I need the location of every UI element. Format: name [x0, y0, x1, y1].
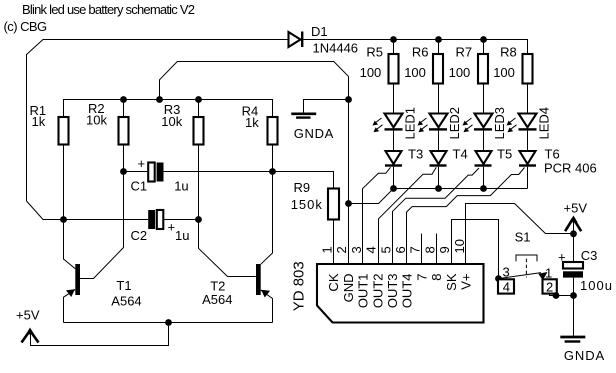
- wire: T6 gate to pin 6: [407, 168, 525, 264]
- diode D1: [289, 24, 359, 56]
- wire: D1 cathode rail to R5-R8: [303, 40, 527, 55]
- svg-text:3: 3: [503, 265, 510, 280]
- svg-text:6: 6: [393, 246, 408, 253]
- svg-text:(c) CBG: (c) CBG: [4, 19, 48, 34]
- wire: pin 9 SK to switch S1: [452, 220, 499, 279]
- resistor R9: [291, 180, 339, 220]
- thyristor T4: [430, 146, 468, 166]
- resistor R7: [449, 45, 488, 84]
- svg-text:YD 803: YD 803: [291, 261, 308, 311]
- capacitor C3: [558, 234, 613, 296]
- svg-text:100: 100: [493, 65, 515, 80]
- resistor R6: [404, 45, 443, 84]
- svg-text:+: +: [138, 156, 146, 171]
- resistor R1: [30, 103, 69, 145]
- svg-text:D1: D1: [311, 24, 328, 39]
- svg-text:R6: R6: [412, 45, 429, 60]
- wire: LED1 to T3: [393, 131, 395, 151]
- wire: R9 to pin 1: [333, 220, 335, 264]
- svg-text:OUT1: OUT1: [356, 274, 371, 309]
- svg-text:8: 8: [429, 274, 444, 281]
- wire: GNDA stub: [304, 100, 349, 113]
- wire: emitter rail T1-T2: [64, 322, 273, 324]
- svg-text:2: 2: [334, 246, 349, 253]
- wire: LED3 to T5: [483, 131, 485, 151]
- ground GNDA top: [291, 114, 334, 141]
- svg-text:LED3: LED3: [492, 107, 507, 140]
- svg-text:SK: SK: [444, 273, 459, 291]
- svg-text:OUT4: OUT4: [400, 274, 415, 309]
- svg-text:1k: 1k: [245, 115, 259, 130]
- resistor R5: [360, 45, 399, 84]
- svg-text:A564: A564: [202, 292, 232, 307]
- wire: C1 right node to T2 collector: [261, 172, 273, 265]
- capacitor C1: [124, 156, 273, 194]
- svg-text:LED4: LED4: [537, 107, 552, 140]
- resistor R4: [242, 104, 278, 145]
- svg-text:C2: C2: [131, 228, 148, 243]
- power +5V bottom left: [16, 307, 40, 342]
- wire: R4 bottom to C1 right node: [272, 145, 274, 172]
- resistor R8: [493, 45, 532, 84]
- wire: R7 to LED3: [483, 84, 485, 114]
- svg-text:100: 100: [404, 65, 426, 80]
- wire: switch to GND: [550, 292, 577, 299]
- node: R2/C1/T1 collector: [120, 168, 127, 175]
- LED LED1: [373, 107, 418, 140]
- node: top rail junctions: [120, 96, 202, 103]
- thyristor T6: [519, 146, 597, 175]
- svg-text:OUT3: OUT3: [385, 274, 400, 309]
- wire: T4 cathode to GND rail: [438, 167, 440, 189]
- wire: R5 to LED1: [393, 84, 395, 114]
- power +5V top right: [564, 200, 588, 237]
- wire: T3 gate to pin 3: [363, 167, 391, 263]
- wire: top rail R1-R4: [64, 100, 273, 118]
- node: R4/C1/T2 collector: [269, 168, 276, 175]
- svg-text:C1: C1: [131, 178, 148, 193]
- svg-text:10k: 10k: [86, 113, 107, 128]
- svg-text:7: 7: [408, 246, 423, 253]
- resistor R2: [86, 101, 129, 145]
- svg-text:R8: R8: [500, 45, 517, 60]
- svg-text:150k: 150k: [291, 197, 323, 212]
- svg-text:100u: 100u: [580, 278, 613, 293]
- LED LED2: [418, 107, 463, 140]
- svg-text:V+: V+: [459, 274, 474, 290]
- wire: SCR cathode GND rail: [394, 188, 528, 190]
- svg-text:10: 10: [452, 239, 467, 253]
- wire: node A to T1 base: [64, 220, 76, 269]
- title text: [4, 2, 195, 34]
- svg-text:+5V: +5V: [564, 200, 588, 215]
- wire: D1 anode rail from left border top: [27, 40, 289, 202]
- wire: R1 bottom to node A: [63, 145, 65, 220]
- svg-text:Blink led use battery schemati: Blink led use battery schematic V2: [22, 2, 195, 17]
- svg-text:4: 4: [503, 279, 510, 294]
- node: GNDA junction: [345, 96, 352, 103]
- svg-text:T1: T1: [116, 278, 131, 293]
- pin 8 stub: [436, 234, 438, 264]
- svg-text:+: +: [558, 250, 566, 265]
- svg-text:1u: 1u: [175, 228, 189, 243]
- svg-text:100: 100: [360, 65, 382, 80]
- pin labels inside IC: [326, 273, 473, 308]
- LED LED4: [507, 107, 552, 140]
- svg-text:T3: T3: [408, 146, 423, 161]
- svg-text:LED2: LED2: [447, 107, 462, 140]
- wire: +5V feed to emitter rail: [31, 323, 169, 346]
- wire: T3 cathode to GND rail: [393, 167, 395, 189]
- wire: T5 gate to pin 5: [393, 168, 480, 263]
- wire: LED2 to T4: [438, 131, 440, 151]
- svg-text:10k: 10k: [161, 114, 182, 129]
- svg-text:OUT2: OUT2: [370, 274, 385, 309]
- transistor T1: [64, 264, 142, 323]
- svg-text:T6: T6: [545, 146, 560, 161]
- svg-text:CK: CK: [326, 273, 341, 291]
- svg-text:8: 8: [422, 246, 437, 253]
- svg-text:GNDA: GNDA: [564, 348, 605, 363]
- capacitor C2: [64, 210, 199, 243]
- svg-text:PCR 406: PCR 406: [544, 160, 597, 175]
- node: D1 rail junctions: [390, 36, 487, 43]
- wire: GND bypass link from top rail to pin 2: [160, 62, 349, 264]
- svg-text:R9: R9: [294, 180, 311, 195]
- node: GND rail junctions: [390, 185, 487, 192]
- svg-text:4: 4: [364, 246, 379, 253]
- switch S1: [495, 230, 557, 295]
- svg-text:1N4446: 1N4446: [313, 41, 359, 56]
- IC U1 YD 803 body: [291, 261, 484, 322]
- svg-text:T5: T5: [497, 146, 512, 161]
- svg-text:3: 3: [349, 246, 364, 253]
- node A: R1/C2/T1 base: [60, 216, 67, 223]
- svg-text:+5V: +5V: [16, 307, 40, 322]
- thyristor T3: [385, 146, 423, 166]
- wire: GND branch to SCR rail: [349, 189, 394, 204]
- svg-text:R7: R7: [456, 45, 473, 60]
- svg-text:GNDA: GNDA: [294, 126, 334, 141]
- wire: T5 cathode to GND rail: [483, 167, 485, 189]
- svg-text:A564: A564: [111, 293, 141, 308]
- wire: C1 node to T1 collector: [80, 172, 124, 279]
- wire: C3 to GNDA bottom: [573, 296, 575, 336]
- wire: T4 gate to pin 4: [379, 167, 437, 263]
- pin number labels: [320, 239, 467, 253]
- svg-text:T4: T4: [453, 146, 468, 161]
- thyristor T5: [475, 146, 513, 166]
- node: +5V junction on emitter rail: [165, 319, 172, 326]
- svg-text:S1: S1: [515, 230, 531, 245]
- svg-text:2: 2: [546, 279, 553, 294]
- svg-text:1: 1: [545, 265, 552, 280]
- wire: R3 bottom to C2 node: [198, 145, 200, 220]
- wire: pin 10 V+ to +5V: [466, 204, 574, 264]
- wire: C1 node to R9: [273, 172, 334, 189]
- wire: R2 bottom to C1 node: [123, 145, 125, 172]
- svg-text:100: 100: [449, 65, 471, 80]
- svg-text:GND: GND: [341, 274, 356, 303]
- svg-text:C3: C3: [581, 248, 598, 263]
- svg-text:LED1: LED1: [403, 107, 418, 140]
- wire: T6 cathode to GND rail: [527, 167, 529, 189]
- svg-text:+: +: [168, 220, 176, 235]
- transistor T2: [202, 264, 272, 323]
- svg-text:1: 1: [320, 246, 335, 253]
- svg-text:9: 9: [437, 246, 452, 253]
- node: R3/C2/T2 base: [195, 216, 202, 223]
- node: pin2 GND branch junction: [345, 200, 352, 207]
- LED LED3: [463, 107, 508, 140]
- svg-text:R5: R5: [366, 45, 383, 60]
- svg-text:5: 5: [378, 246, 393, 253]
- pin 7 stub: [421, 234, 423, 264]
- svg-text:1u: 1u: [174, 178, 188, 193]
- wire: LED4 to T6: [527, 131, 529, 151]
- ground GNDA bottom right: [560, 337, 605, 363]
- wire: R8 to LED4: [527, 84, 529, 114]
- svg-text:1k: 1k: [32, 114, 46, 129]
- wire: R6 to LED2: [438, 84, 440, 114]
- wire: left border bottom corner to node A: [27, 201, 64, 220]
- wire: C2 node to T2 base: [199, 220, 256, 277]
- svg-text:7: 7: [414, 274, 429, 281]
- resistor R3: [161, 102, 203, 145]
